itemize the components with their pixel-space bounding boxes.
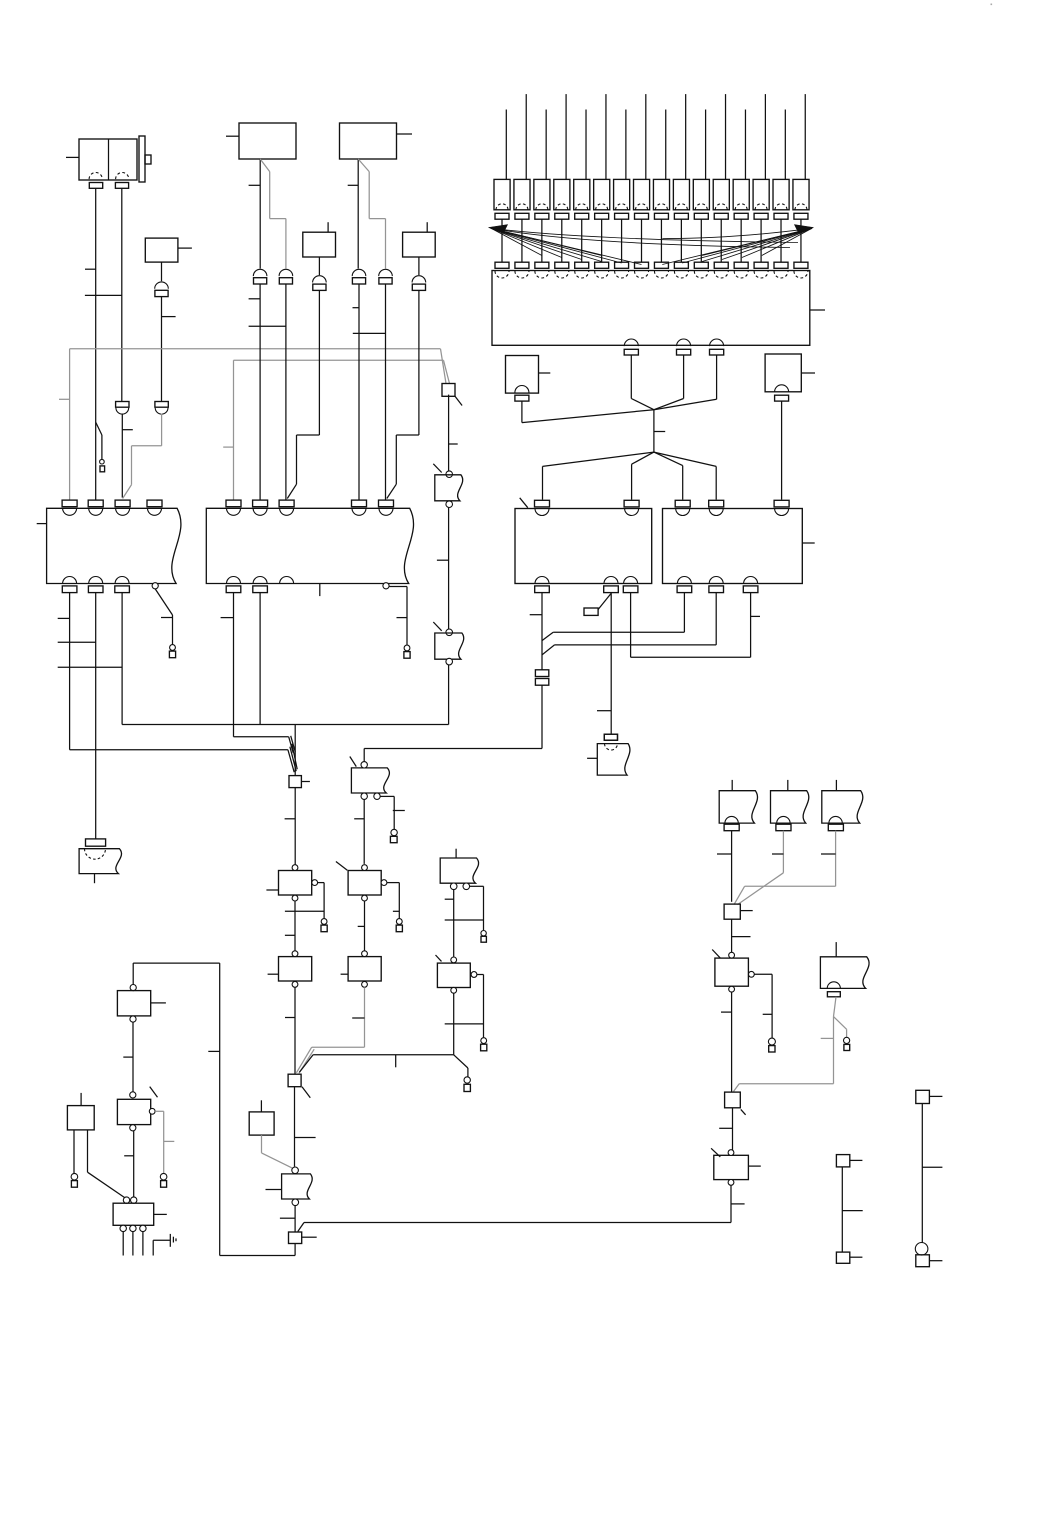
B1 bottom terminals [62, 577, 129, 593]
R10 bottom pigtails [123, 1232, 143, 1256]
wire (gray) SN2 down [821, 997, 836, 1084]
connector half on motor lead B [116, 402, 129, 415]
wire ECU pin a to node N1 [631, 355, 654, 410]
node square N2 [289, 776, 310, 788]
wire B3 pin1 net [530, 593, 717, 670]
B2 bottom circle terminal [383, 583, 389, 589]
wire bus to node N6 [298, 1223, 731, 1232]
wire FL2 black down [348, 159, 359, 269]
block B2 (junction) [206, 508, 413, 583]
wire ECU pin b to node N1 [654, 355, 684, 410]
wire SN1 c1 down to relay R5 [445, 890, 484, 957]
wires: N1 fan to blocks B3/B4 [543, 452, 717, 500]
B2 stub wire [319, 584, 321, 597]
wire (gray) SN2 branch to stub [834, 1017, 847, 1038]
relay R3 [336, 862, 387, 901]
wire below K3 [418, 257, 420, 275]
branch to stub right of N3 [454, 1055, 468, 1077]
wire R1 to R2 [285, 901, 295, 951]
stub connector below B1 [169, 645, 175, 658]
wire CH-A [842, 1167, 862, 1252]
wire: motor lead B continues to block B1 pin3 [122, 414, 133, 498]
SN1 bottom circles [450, 883, 469, 890]
wire B1 circle term to stub [155, 589, 172, 645]
node circle below SW1 [446, 501, 453, 508]
wire (gray) bus2 to junction J-A [223, 360, 449, 500]
wire horn2 to node N6 [280, 1206, 295, 1232]
SN2 bottom connector [827, 982, 840, 997]
label box under B3 [584, 594, 611, 616]
wires: right fan [662, 228, 812, 264]
wire long right leg down [208, 963, 295, 1255]
wire B+ left to stub [73, 1130, 75, 1173]
flasher F1 (wavy box) [587, 744, 630, 776]
wire B3 pin3 to B4 pin3 [631, 593, 760, 658]
component FL1 box [226, 123, 296, 159]
wire: motor lead A down to block B1 pin2 [85, 189, 122, 501]
wire N5 down to relay R7 [719, 1108, 732, 1150]
stub on R1 branch [321, 919, 327, 932]
B1 top terminals [62, 500, 162, 515]
switch SW1 (wavy box) [433, 464, 462, 501]
wire (gray) R4 down to node N3 [352, 987, 364, 1047]
wire N3 down [295, 1087, 316, 1167]
stub on side wire [481, 1038, 487, 1051]
component K2 small box [303, 222, 336, 257]
wire R8 to R9 [123, 1022, 133, 1092]
stub on motor branch [100, 459, 105, 471]
arrow (to harness, right) [795, 225, 814, 233]
stub below B+ [71, 1173, 78, 1187]
wire FL2 gray branch to block B2 pin5 [385, 284, 387, 500]
block B4 [663, 509, 815, 584]
wire R6 down to node N5 [721, 992, 732, 1092]
SW5 bottom connector [828, 816, 843, 830]
bundle (gray) R4 to N3 [296, 1047, 364, 1073]
wire ECU pin c to node N1 [654, 355, 717, 410]
wire below K1 [161, 262, 163, 281]
wire FL2 black to block B2 pin4 [353, 284, 386, 500]
stub connector below MS [390, 829, 397, 842]
relay R1 [266, 865, 317, 901]
wire J-A down [448, 395, 450, 471]
junction bar lower [445, 1023, 484, 1025]
component FL2 box [340, 123, 413, 159]
wire: motor lead B down [121, 189, 123, 402]
switch SW3 (wavy box) [719, 780, 757, 823]
wire R9 to relay R10 [124, 1131, 134, 1197]
wire (gray) K1 branch to block B1 pin3 [123, 414, 162, 499]
R8 bottom circle [130, 1016, 136, 1022]
horn H1 [79, 849, 121, 884]
wire FL1 black down [249, 159, 261, 269]
motor terminal domes and rects [89, 173, 129, 189]
B1 bottom circle terminal [152, 583, 158, 589]
node circle above SW1 [446, 471, 453, 478]
connector CH-A top square [836, 1155, 862, 1167]
S2 bottom terminal [775, 385, 789, 401]
wire (gray) FL1 stepped branch [260, 159, 286, 269]
wire K1 to connector half [162, 297, 176, 402]
wire N2 down to relay R1 [285, 788, 296, 865]
MS bottom circles [361, 793, 380, 799]
connector below K2 [313, 276, 327, 291]
junction square J-A [442, 384, 462, 406]
bundle into N2 [288, 725, 297, 776]
wire S2 down to block B4 [781, 401, 783, 500]
connector bank J1-J16 with leads [494, 94, 809, 278]
motor M1 (magneto) body [79, 136, 151, 182]
relay R9 [117, 1087, 157, 1125]
component K3 small box [403, 222, 436, 257]
component K1 small box [145, 238, 192, 262]
connector pair below K1 [155, 282, 169, 297]
relay R10 (CDI) top circles [123, 1197, 137, 1203]
wire SW3 down to node N4 [717, 831, 732, 902]
relay R7 [711, 1148, 761, 1185]
wire: motor left lead [66, 156, 79, 158]
wire SW2 down to bus [448, 665, 450, 725]
ring terminal CH-B [915, 1243, 928, 1256]
wire (gray) SN2 to node N5 [734, 1084, 834, 1092]
relay R8 [117, 991, 165, 1016]
connector CH-B top square [916, 1090, 943, 1103]
wire R7 down to bus [731, 1185, 745, 1222]
connector below FL1 gray branch [279, 269, 293, 284]
wire B2 pin1 down [221, 593, 289, 737]
node square N3 [288, 1074, 310, 1098]
SW3 bottom connector [724, 816, 739, 830]
relay R5 [436, 955, 477, 993]
node square N6 [289, 1232, 317, 1244]
stub on R9 branch [160, 1173, 167, 1187]
R5 right circle to side wire [477, 975, 484, 1038]
B3 bottom terminals [535, 577, 638, 593]
block B1 (fuse box) [37, 508, 181, 583]
component B+ box [67, 1093, 94, 1130]
stub on SN2 branch [844, 1037, 850, 1050]
horn H1 terminal [86, 839, 106, 846]
wire B+ right to relay R10 [88, 1130, 125, 1198]
R9 bottom circle [130, 1125, 136, 1131]
wire FL1 gray branch to block B2 pin3 [285, 284, 287, 500]
connector below FL2 gray branch [379, 269, 393, 284]
R10 bottom circles [120, 1225, 146, 1231]
wire B3 pin2 down [597, 593, 611, 735]
node square N4 [724, 904, 753, 919]
wire (gray) R9 branch [155, 1111, 174, 1173]
node square N5 [725, 1092, 746, 1115]
wire B2 circle term to stub [389, 587, 407, 646]
B3 top terminals [535, 500, 640, 515]
wire (gray) SW4 merge [738, 831, 784, 905]
wire SN1 c2 side [470, 886, 484, 930]
wire B1 pin1 down to node square N2 [58, 593, 288, 750]
wire below K2 [318, 257, 320, 275]
wire B1 pin3 down [121, 593, 123, 725]
tick on J-A wire [448, 443, 457, 445]
node circle below SW2 [446, 658, 453, 665]
R1 side branch [285, 883, 324, 919]
wire K3 stepped to block B2 pin5 [387, 290, 419, 498]
S1 bottom terminal [515, 386, 529, 402]
ECU bottom terminals [624, 339, 724, 355]
wire bus y724 to node riser [122, 724, 449, 726]
node circle above SW2 [446, 629, 453, 636]
B2 bottom terminals [226, 577, 293, 593]
R3 side branch [387, 883, 399, 919]
wire (gray) K4 to horn2 [262, 1135, 293, 1168]
R6 side branch [754, 974, 772, 1038]
wire MS c1 down to relay R3 [354, 799, 364, 864]
node N1 riser [654, 410, 665, 452]
B4 bottom terminals [677, 577, 758, 593]
wire N6 down to loop [294, 1244, 296, 1256]
connector below K3 [412, 276, 426, 291]
stub connector below B2 [404, 645, 410, 658]
speck artifact top-right [991, 4, 993, 6]
wire SW1 down [437, 508, 449, 630]
wire N4 down to relay R6 [732, 919, 751, 952]
R9 right circle [149, 1108, 155, 1114]
relay R6 [712, 950, 754, 993]
switch SW4 (wavy box) [771, 780, 809, 823]
horn2 (wavy box) [266, 1174, 313, 1199]
inline connector pair on B3 pin1 wire [535, 670, 548, 685]
wire R2 down to node N3 [285, 987, 295, 1074]
stub on R6 branch [768, 1038, 775, 1052]
component S2 small block [765, 354, 815, 392]
wire CH-B [922, 1104, 942, 1243]
bundle R5 to N3 [299, 1055, 453, 1072]
relay R4 [341, 951, 382, 988]
block B3 [515, 498, 652, 584]
B4 top terminals [675, 500, 789, 515]
connector CH-B bottom square [916, 1255, 943, 1267]
sensor SN2 (wavy box) [820, 942, 869, 988]
relay R8 top circle [130, 985, 136, 991]
ECU block U1 [492, 271, 825, 346]
arrow (to harness, left) [489, 225, 508, 233]
horn2 bottom circle [292, 1199, 299, 1206]
main switch MS (wavy box) [350, 757, 390, 794]
wire R3 to R4 [358, 901, 365, 951]
connector below FL2 black [352, 269, 366, 284]
stub on SN1 side wire [481, 931, 487, 943]
stub right of N3 [464, 1077, 470, 1092]
wire R5 down to node N3 [453, 993, 455, 1055]
connector below FL1 black [253, 269, 267, 284]
component K4 box [249, 1100, 274, 1135]
MS top circle [361, 762, 367, 768]
wire (gray) bus1 to junction J-A [59, 349, 446, 501]
switch SW5 (wavy box) [822, 780, 863, 823]
B2 top terminals [226, 500, 394, 515]
wire S1 to node N1 [522, 401, 654, 423]
horn2 top circle [292, 1167, 299, 1174]
ground [153, 1234, 176, 1256]
branch from motor lead A to stub [96, 422, 102, 459]
relay R10 (CDI) [113, 1203, 167, 1225]
switch SW2 (wavy box) [433, 622, 463, 659]
relay R2 [268, 951, 312, 988]
wire (gray) FL2 stepped branch [358, 159, 385, 269]
relay R9 top circle [130, 1092, 136, 1098]
sensor SN1 (wavy box) [440, 849, 478, 884]
wire MS c2 to stub [380, 796, 405, 829]
SW4 bottom connector [776, 816, 791, 830]
wire B2 pin2 down [259, 593, 261, 725]
wire FL1 black to block B2 pin2 [249, 284, 286, 500]
wires: left fan [491, 228, 798, 264]
wire (gray) SW5 merge [734, 831, 836, 905]
stub on R3 branch [396, 919, 402, 932]
connector above flasher [604, 734, 617, 740]
connector half lower on K1 branch [155, 402, 168, 415]
wire B1 pin2 down to horn [95, 593, 97, 839]
wire K2 stepped to block B2 pin3 [287, 290, 319, 498]
wire loop over relay R8 [133, 963, 220, 984]
wire B3 pin1 to main switch [364, 685, 542, 761]
component S1 small block [506, 356, 551, 394]
connector CH-A bottom square [836, 1252, 862, 1263]
